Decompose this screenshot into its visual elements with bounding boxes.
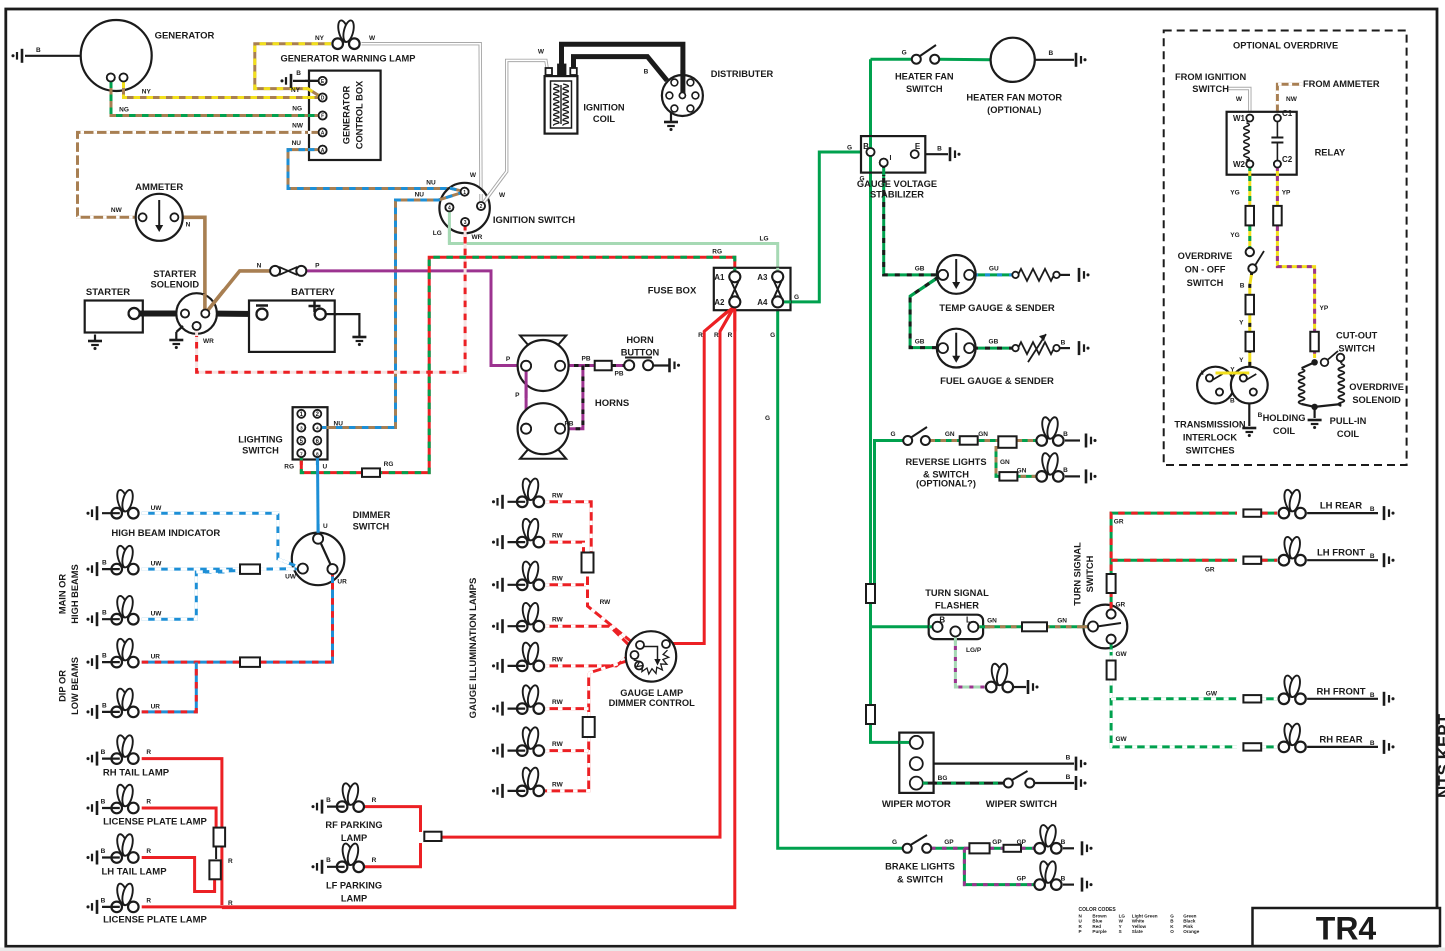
svg-text:B: B — [1066, 774, 1071, 781]
svg-text:TURN SIGNAL: TURN SIGNAL — [1073, 542, 1083, 606]
svg-text:IGNITION: IGNITION — [583, 103, 625, 113]
svg-text:WR: WR — [203, 338, 214, 345]
svg-text:COLOR CODES: COLOR CODES — [1079, 907, 1117, 913]
svg-text:8: 8 — [316, 451, 319, 457]
svg-text:OVERDRIVE: OVERDRIVE — [1178, 251, 1233, 261]
svg-text:GP: GP — [1017, 839, 1027, 846]
svg-text:GB: GB — [989, 339, 999, 346]
svg-text:B: B — [1048, 50, 1053, 57]
svg-text:NG: NG — [119, 107, 129, 114]
svg-text:SWITCH: SWITCH — [1187, 278, 1224, 288]
svg-text:Purple: Purple — [1092, 929, 1107, 934]
svg-text:YG: YG — [1230, 232, 1239, 239]
svg-text:S: S — [1119, 929, 1122, 934]
svg-text:B: B — [102, 653, 107, 660]
svg-text:STABILIZER: STABILIZER — [870, 190, 924, 200]
svg-text:PB: PB — [614, 371, 623, 378]
svg-text:G: G — [770, 332, 775, 339]
svg-text:RG: RG — [712, 249, 722, 256]
svg-text:COIL: COIL — [1273, 426, 1296, 436]
svg-text:BATTERY: BATTERY — [291, 287, 335, 298]
svg-text:B: B — [1061, 876, 1066, 883]
svg-text:NU: NU — [415, 192, 425, 199]
svg-text:GR: GR — [1205, 567, 1215, 574]
svg-text:A: A — [321, 131, 325, 137]
svg-text:GP: GP — [1017, 876, 1027, 883]
svg-text:TEMP GAUGE & SENDER: TEMP GAUGE & SENDER — [939, 303, 1055, 314]
svg-text:GN: GN — [1000, 459, 1010, 466]
svg-text:C2: C2 — [1282, 155, 1293, 164]
svg-text:GU: GU — [989, 266, 999, 273]
svg-text:NTS KEPT: NTS KEPT — [1435, 713, 1445, 798]
svg-text:(OPTIONAL): (OPTIONAL) — [987, 105, 1041, 115]
svg-text:DIMMER: DIMMER — [353, 510, 391, 520]
svg-text:LICENSE PLATE LAMP: LICENSE PLATE LAMP — [103, 817, 207, 828]
svg-text:P: P — [506, 356, 511, 363]
svg-text:LAMP: LAMP — [341, 833, 367, 843]
svg-text:W1: W1 — [1233, 114, 1246, 123]
svg-text:MAIN OR: MAIN OR — [58, 574, 68, 615]
svg-text:OPTIONAL OVERDRIVE: OPTIONAL OVERDRIVE — [1233, 41, 1338, 51]
svg-text:COIL: COIL — [1337, 429, 1360, 439]
svg-text:GN: GN — [1017, 468, 1027, 475]
svg-text:RW: RW — [552, 575, 564, 582]
svg-text:GW: GW — [1116, 651, 1128, 658]
svg-text:CUT-OUT: CUT-OUT — [1336, 331, 1378, 341]
svg-text:R: R — [146, 749, 151, 756]
svg-text:UW: UW — [285, 574, 297, 581]
svg-text:A: A — [321, 148, 325, 154]
svg-text:IGNITION SWITCH: IGNITION SWITCH — [493, 215, 575, 226]
svg-text:2: 2 — [480, 204, 483, 210]
svg-text:GN: GN — [1057, 618, 1067, 625]
svg-text:RW: RW — [600, 599, 612, 606]
svg-text:I: I — [890, 155, 892, 162]
svg-text:GENERATOR WARNING LAMP: GENERATOR WARNING LAMP — [281, 54, 416, 64]
svg-text:B: B — [1230, 398, 1235, 405]
svg-text:PB: PB — [581, 356, 590, 363]
svg-text:RELAY: RELAY — [1315, 148, 1346, 158]
svg-text:GR: GR — [1116, 602, 1126, 609]
svg-text:SWITCH: SWITCH — [242, 446, 279, 456]
svg-text:Y: Y — [1239, 320, 1244, 327]
svg-text:UW: UW — [151, 505, 163, 512]
svg-text:1: 1 — [463, 190, 466, 196]
svg-text:FUEL GAUGE & SENDER: FUEL GAUGE & SENDER — [940, 376, 1054, 387]
svg-text:HIGH BEAMS: HIGH BEAMS — [70, 564, 80, 623]
svg-text:RH REAR: RH REAR — [1319, 734, 1362, 745]
svg-text:GP: GP — [944, 839, 954, 846]
svg-text:B: B — [1063, 467, 1068, 474]
svg-text:GB: GB — [915, 339, 925, 346]
svg-text:B: B — [644, 69, 649, 76]
svg-text:GAUGE LAMP: GAUGE LAMP — [620, 688, 683, 698]
svg-text:SOLENOID: SOLENOID — [1352, 395, 1401, 405]
svg-text:UW: UW — [151, 561, 163, 568]
svg-text:P: P — [515, 392, 520, 399]
svg-text:HIGH BEAM INDICATOR: HIGH BEAM INDICATOR — [111, 528, 220, 539]
svg-text:A4: A4 — [757, 298, 768, 307]
svg-text:RW: RW — [552, 699, 564, 706]
svg-text:REVERSE LIGHTS: REVERSE LIGHTS — [905, 457, 986, 467]
svg-text:G: G — [890, 431, 895, 438]
svg-text:SWITCH: SWITCH — [353, 522, 390, 532]
svg-text:CONTROL BOX: CONTROL BOX — [355, 80, 365, 149]
svg-text:STARTER: STARTER — [153, 269, 196, 279]
svg-text:B: B — [1240, 283, 1245, 290]
svg-text:SWITCH: SWITCH — [1338, 344, 1375, 354]
svg-text:B: B — [101, 749, 106, 756]
svg-text:BRAKE LIGHTS: BRAKE LIGHTS — [885, 862, 955, 872]
svg-text:RG: RG — [284, 464, 294, 471]
svg-text:R: R — [698, 332, 703, 339]
svg-text:YP: YP — [1282, 190, 1291, 197]
svg-text:LIGHTING: LIGHTING — [238, 435, 282, 445]
svg-text:Slate: Slate — [1132, 929, 1143, 934]
svg-text:UW: UW — [151, 611, 163, 618]
svg-text:Orange: Orange — [1183, 929, 1200, 934]
svg-text:Y: Y — [1239, 357, 1244, 364]
svg-text:RW: RW — [552, 533, 564, 540]
svg-text:A2: A2 — [714, 298, 725, 307]
svg-text:SWITCH: SWITCH — [1192, 84, 1229, 94]
svg-text:WIPER SWITCH: WIPER SWITCH — [986, 799, 1057, 810]
svg-text:YG: YG — [1230, 190, 1239, 197]
svg-text:TRANSMISSION: TRANSMISSION — [1174, 420, 1246, 430]
svg-text:B: B — [102, 560, 107, 567]
svg-text:GP: GP — [992, 839, 1002, 846]
svg-text:U: U — [323, 464, 328, 471]
svg-text:GN: GN — [978, 431, 988, 438]
svg-text:RH TAIL LAMP: RH TAIL LAMP — [103, 767, 170, 778]
svg-text:UR: UR — [151, 654, 161, 661]
svg-text:B: B — [101, 799, 106, 806]
svg-text:B: B — [1370, 692, 1375, 699]
svg-text:B: B — [326, 797, 331, 804]
svg-text:HEATER FAN: HEATER FAN — [895, 72, 954, 82]
svg-text:RW: RW — [552, 617, 564, 624]
svg-text:HOLDING: HOLDING — [1263, 413, 1306, 423]
svg-text:D: D — [321, 96, 325, 102]
svg-text:7: 7 — [300, 451, 303, 457]
svg-text:& SWITCH: & SWITCH — [897, 875, 943, 885]
svg-text:NW: NW — [292, 123, 304, 130]
svg-text:LOW BEAMS: LOW BEAMS — [70, 657, 80, 715]
svg-text:FUSE BOX: FUSE BOX — [648, 286, 697, 297]
svg-text:DIP OR: DIP OR — [58, 670, 68, 702]
svg-text:C1: C1 — [1282, 109, 1293, 118]
svg-text:G: G — [902, 50, 907, 57]
svg-text:R: R — [714, 332, 719, 339]
svg-text:OVERDRIVE: OVERDRIVE — [1349, 382, 1404, 392]
svg-text:FROM AMMETER: FROM AMMETER — [1303, 79, 1380, 89]
svg-text:4: 4 — [316, 426, 319, 432]
svg-text:O: O — [1170, 929, 1174, 934]
svg-text:LICENSE PLATE LAMP: LICENSE PLATE LAMP — [103, 915, 207, 926]
svg-text:COIL: COIL — [593, 114, 616, 124]
svg-text:UR: UR — [151, 704, 161, 711]
svg-text:TR4: TR4 — [1316, 911, 1377, 947]
svg-text:HORN: HORN — [626, 335, 654, 345]
svg-text:B: B — [1066, 755, 1071, 762]
svg-text:B: B — [1063, 431, 1068, 438]
svg-text:LH TAIL LAMP: LH TAIL LAMP — [101, 866, 167, 877]
svg-text:GAUGE ILLUMINATION LAMPS: GAUGE ILLUMINATION LAMPS — [468, 578, 479, 719]
svg-text:Y: Y — [1201, 370, 1206, 377]
svg-text:GENERATOR: GENERATOR — [342, 85, 352, 144]
svg-text:W: W — [538, 49, 545, 56]
svg-text:B: B — [102, 610, 107, 617]
svg-text:W2: W2 — [1233, 160, 1246, 169]
svg-text:STARTER: STARTER — [86, 287, 130, 298]
svg-text:RW: RW — [552, 781, 564, 788]
svg-text:R: R — [146, 898, 151, 905]
svg-text:LG: LG — [759, 236, 768, 243]
svg-text:R: R — [228, 858, 233, 865]
svg-text:TURN SIGNAL: TURN SIGNAL — [925, 588, 989, 598]
svg-text:RF PARKING: RF PARKING — [325, 820, 382, 830]
svg-text:R: R — [146, 848, 151, 855]
svg-text:G: G — [765, 415, 770, 422]
svg-text:HEATER FAN MOTOR: HEATER FAN MOTOR — [966, 93, 1062, 103]
svg-text:P: P — [315, 263, 320, 270]
svg-text:LAMP: LAMP — [341, 894, 367, 904]
svg-text:B: B — [1370, 506, 1375, 513]
svg-text:R: R — [372, 797, 377, 804]
svg-text:INTERLOCK: INTERLOCK — [1183, 433, 1238, 443]
svg-text:B: B — [101, 898, 106, 905]
svg-text:R: R — [228, 900, 233, 907]
svg-text:W: W — [369, 35, 376, 42]
svg-text:WIPER MOTOR: WIPER MOTOR — [882, 799, 951, 810]
svg-text:(OPTIONAL?): (OPTIONAL?) — [916, 479, 976, 489]
svg-text:B: B — [1370, 740, 1375, 747]
svg-text:RH FRONT: RH FRONT — [1316, 686, 1365, 697]
svg-text:DISTRIBUTER: DISTRIBUTER — [711, 69, 774, 79]
svg-text:GENERATOR: GENERATOR — [155, 31, 215, 42]
svg-text:FLASHER: FLASHER — [935, 601, 979, 611]
svg-text:SWITCHES: SWITCHES — [1185, 446, 1234, 456]
svg-text:NU: NU — [334, 421, 344, 428]
svg-text:BUTTON: BUTTON — [621, 348, 660, 358]
svg-text:3: 3 — [300, 426, 303, 432]
svg-text:SWITCH: SWITCH — [1085, 555, 1095, 592]
svg-text:GN: GN — [945, 431, 955, 438]
svg-text:RW: RW — [552, 741, 564, 748]
svg-text:B: B — [102, 703, 107, 710]
svg-text:NU: NU — [292, 140, 302, 147]
svg-text:GAUGE VOLTAGE: GAUGE VOLTAGE — [857, 179, 937, 189]
svg-text:NY: NY — [142, 89, 152, 96]
svg-text:W: W — [470, 172, 477, 179]
svg-text:DIMMER CONTROL: DIMMER CONTROL — [609, 698, 696, 708]
svg-text:E: E — [915, 142, 921, 151]
svg-text:LG/P: LG/P — [966, 647, 982, 654]
svg-text:PULL-IN: PULL-IN — [1330, 416, 1367, 426]
svg-text:WR: WR — [472, 234, 483, 241]
svg-text:R: R — [728, 332, 733, 339]
svg-text:LG: LG — [433, 230, 442, 237]
svg-text:B: B — [1370, 553, 1375, 560]
svg-text:ON - OFF: ON - OFF — [1185, 265, 1226, 275]
svg-text:4: 4 — [448, 206, 451, 212]
svg-text:B: B — [1061, 340, 1066, 347]
svg-text:R: R — [146, 799, 151, 806]
svg-text:HORNS: HORNS — [595, 398, 629, 409]
svg-text:NU: NU — [426, 180, 436, 187]
svg-text:LF PARKING: LF PARKING — [326, 881, 382, 891]
svg-text:GR: GR — [1114, 519, 1124, 526]
svg-text:RG: RG — [384, 461, 394, 468]
svg-text:N: N — [186, 222, 191, 229]
svg-text:RW: RW — [552, 656, 564, 663]
svg-text:BG: BG — [938, 775, 948, 782]
svg-text:B: B — [326, 857, 331, 864]
svg-text:PB: PB — [564, 421, 573, 428]
svg-text:G: G — [847, 145, 852, 152]
svg-text:SOLENOID: SOLENOID — [151, 280, 200, 290]
svg-text:AMMETER: AMMETER — [135, 182, 183, 193]
svg-text:3: 3 — [464, 220, 467, 226]
svg-text:P: P — [1079, 929, 1082, 934]
svg-text:NG: NG — [292, 106, 302, 113]
svg-text:FROM IGNITION: FROM IGNITION — [1175, 72, 1247, 82]
svg-text:GW: GW — [1206, 691, 1218, 698]
svg-text:N: N — [257, 263, 262, 270]
svg-text:B: B — [296, 70, 301, 77]
svg-text:RW: RW — [552, 492, 564, 499]
svg-text:F: F — [321, 114, 324, 120]
svg-text:W: W — [499, 192, 506, 199]
svg-text:B: B — [36, 47, 41, 54]
svg-text:GB: GB — [915, 266, 925, 273]
svg-text:A3: A3 — [757, 273, 768, 282]
svg-text:A1: A1 — [714, 273, 725, 282]
svg-text:LH REAR: LH REAR — [1320, 501, 1362, 512]
svg-text:B: B — [101, 848, 106, 855]
svg-text:NW: NW — [1286, 96, 1298, 103]
svg-text:R: R — [372, 857, 377, 864]
svg-text:G: G — [794, 294, 799, 301]
svg-text:NW: NW — [111, 207, 123, 214]
svg-text:G: G — [892, 839, 897, 846]
svg-text:GN: GN — [987, 618, 997, 625]
svg-text:B: B — [937, 146, 942, 153]
svg-text:YP: YP — [1320, 305, 1329, 312]
svg-text:GW: GW — [1116, 736, 1128, 743]
svg-text:U: U — [323, 523, 328, 530]
svg-text:NY: NY — [291, 87, 301, 94]
svg-text:NY: NY — [315, 35, 325, 42]
svg-text:W: W — [1236, 96, 1243, 103]
svg-text:UR: UR — [337, 579, 347, 586]
svg-text:LH FRONT: LH FRONT — [1317, 548, 1365, 559]
svg-text:SWITCH: SWITCH — [906, 84, 943, 94]
svg-text:B: B — [1061, 839, 1066, 846]
